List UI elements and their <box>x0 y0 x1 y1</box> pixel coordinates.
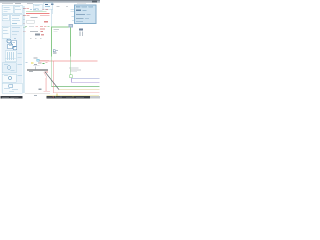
splice S201 area <box>34 58 38 59</box>
wire GRN main feed <box>26 10 47 12</box>
connector C200 cyan <box>37 59 40 61</box>
solenoid B1 <box>2 74 16 82</box>
wire GRN bottom run <box>50 57 52 87</box>
window controls top-right <box>92 1 97 3</box>
connector C3 with pins <box>5 51 16 62</box>
wire TAN drop to ground <box>56 94 58 97</box>
wire TAN bottom run <box>59 89 100 91</box>
wire PNK diagonal drop <box>44 72 47 77</box>
fusible link box <box>44 3 53 10</box>
wire color labels along harness <box>24 7 26 10</box>
label text right of relay box <box>12 26 20 29</box>
junction symbol <box>35 34 40 36</box>
wire RED main feed <box>26 13 50 15</box>
starter motor M1 <box>2 63 16 73</box>
junction box J1 <box>11 14 23 26</box>
label row red headers <box>25 25 27 28</box>
wire BLK diagonal to starter <box>45 72 59 90</box>
wire label text right mid <box>69 67 79 70</box>
wires entering big connector box <box>71 9 75 12</box>
label GRN <box>43 63 45 64</box>
wire RED long feed <box>40 60 98 62</box>
wire harness vertical left <box>22 6 24 93</box>
connector box C2 <box>14 5 22 13</box>
left panel wash <box>2 5 23 93</box>
ground bus G100 <box>27 69 48 71</box>
connector C2 small green <box>70 75 72 78</box>
wire RED bottom run <box>52 61 54 92</box>
label splice <box>34 64 37 65</box>
big connector box top right <box>75 5 97 24</box>
wire PPL <box>70 78 72 83</box>
caption block bottom left <box>1 96 23 99</box>
schematic bottom border <box>47 96 91 99</box>
relay box R1 <box>2 26 10 38</box>
marks above right box <box>77 2 86 5</box>
label YEL <box>31 62 34 63</box>
separator line <box>25 92 50 94</box>
wire YEL bottom run <box>46 94 99 96</box>
connector box C1 top-left <box>2 5 13 13</box>
ignition cluster small marks <box>9 42 11 45</box>
wire BLU drop from fusible link to PCM <box>50 10 52 28</box>
ground G104 label <box>39 89 42 90</box>
marks mid top <box>57 5 60 8</box>
wire BLU <box>72 77 100 79</box>
wire labels row <box>27 14 30 17</box>
wire GRN right border drop <box>70 57 72 75</box>
PCM box green border <box>52 27 71 57</box>
battery symbol 12V right <box>79 28 83 30</box>
logo mark above PCM <box>69 24 74 28</box>
relay K1 in PCM <box>53 50 55 52</box>
ignition switch cluster S1 <box>7 39 11 43</box>
toolbar text <box>2 2 13 5</box>
fuse block F1 <box>2 14 9 21</box>
splice box outline <box>27 20 35 23</box>
title bar top <box>0 0 100 1</box>
fuse box top middle <box>33 4 42 10</box>
battery box B2 <box>2 83 22 93</box>
label red hot-at-all-times <box>27 7 30 10</box>
label row colored <box>26 61 28 64</box>
